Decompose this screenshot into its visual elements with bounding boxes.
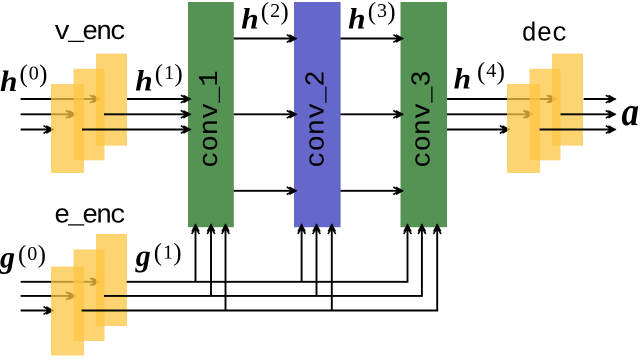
svg-text:1: 1 — [164, 62, 174, 84]
svg-text:g: g — [0, 240, 15, 275]
svg-text:4: 4 — [486, 60, 496, 82]
svg-text:conv_2: conv_2 — [302, 70, 332, 167]
svg-text:dec: dec — [522, 20, 568, 49]
svg-text:h: h — [348, 3, 366, 36]
svg-text:): ) — [38, 241, 46, 268]
svg-text:h: h — [0, 65, 18, 98]
svg-text:): ) — [173, 240, 181, 267]
svg-text:0: 0 — [29, 63, 39, 85]
svg-text:h: h — [241, 3, 258, 36]
svg-text:(: ( — [18, 241, 26, 268]
svg-text:e_enc: e_enc — [54, 202, 125, 232]
svg-text:(: ( — [477, 58, 485, 85]
svg-text:2: 2 — [270, 0, 280, 22]
svg-text:0: 0 — [27, 243, 37, 265]
svg-text:a: a — [622, 89, 640, 134]
svg-text:): ) — [497, 58, 505, 85]
svg-text:(: ( — [261, 0, 269, 25]
svg-text:(: ( — [155, 60, 163, 87]
svg-text:): ) — [280, 0, 288, 25]
svg-text:3: 3 — [377, 0, 387, 22]
svg-text:(: ( — [20, 61, 28, 88]
svg-text:conv_3: conv_3 — [409, 70, 439, 167]
svg-text:h: h — [454, 63, 472, 96]
svg-text:h: h — [135, 65, 153, 98]
svg-text:g: g — [135, 238, 151, 273]
svg-text:(: ( — [154, 240, 162, 267]
svg-text:1: 1 — [163, 241, 173, 263]
svg-text:): ) — [387, 0, 395, 25]
svg-text:(: ( — [368, 0, 376, 25]
svg-text:conv_1: conv_1 — [196, 70, 226, 167]
svg-text:): ) — [39, 61, 47, 88]
svg-text:v_enc: v_enc — [54, 18, 125, 48]
svg-text:): ) — [174, 60, 182, 87]
